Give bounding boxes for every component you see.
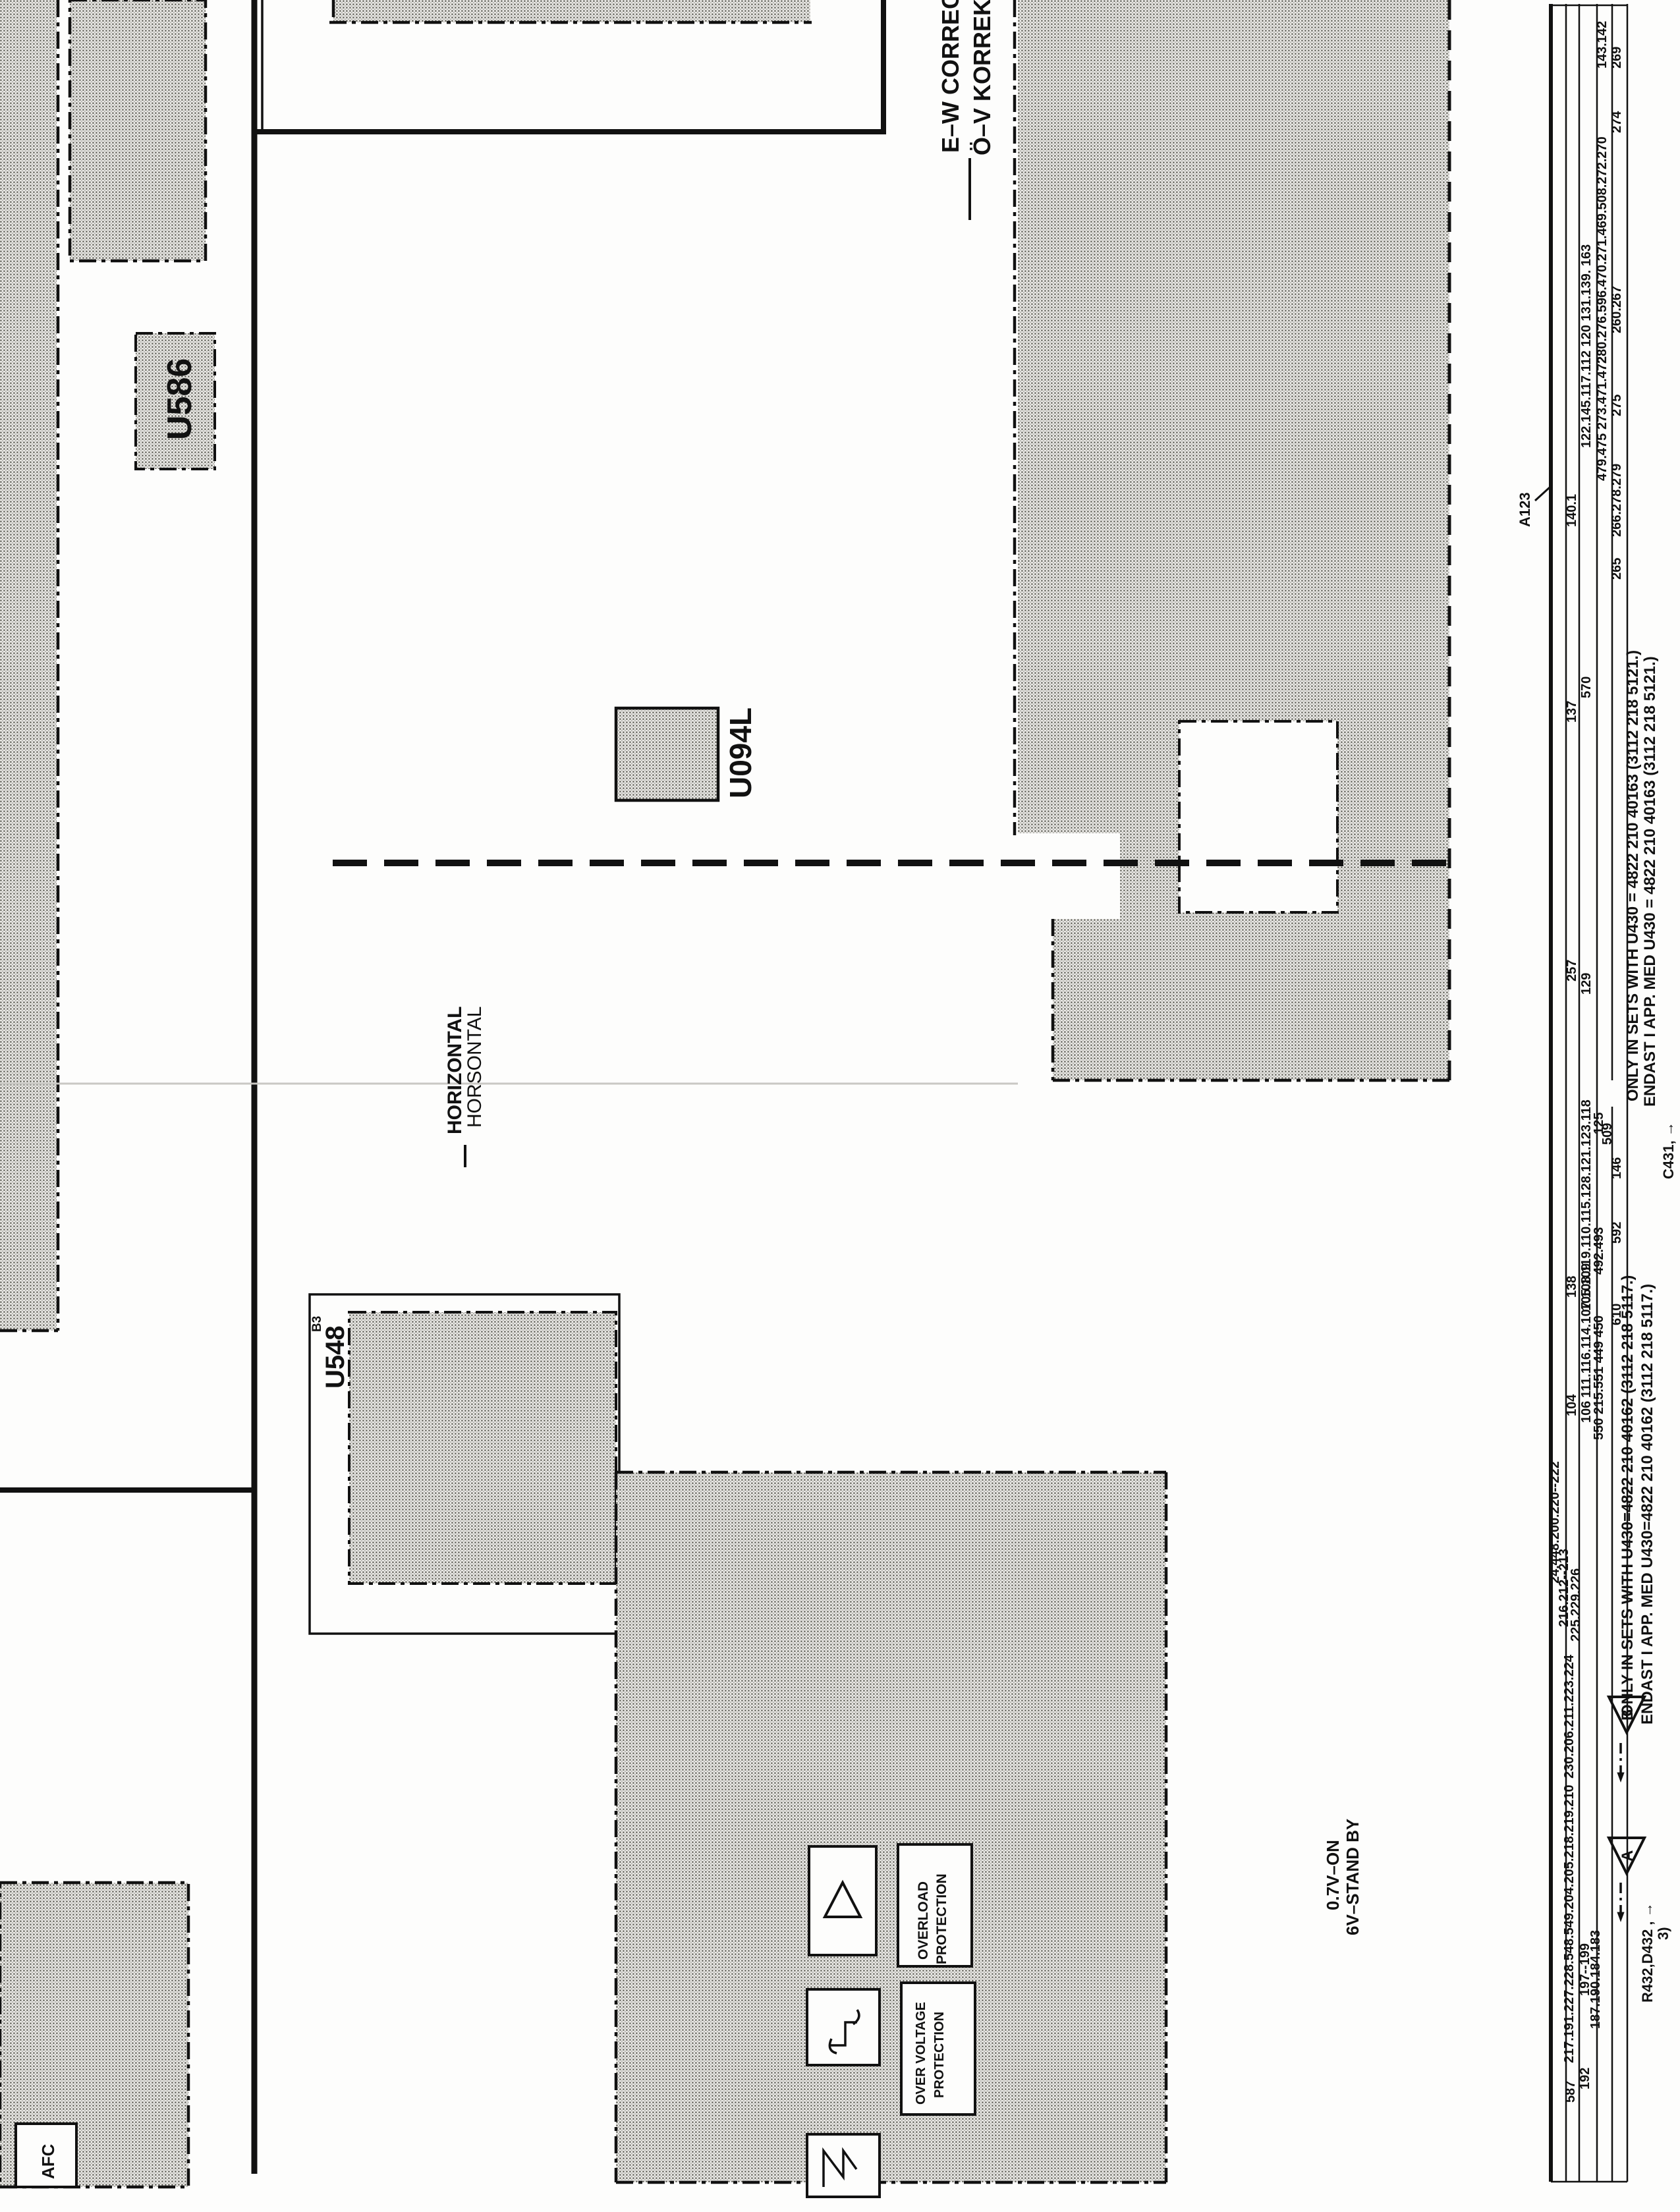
svg-text:492.493: 492.493	[1592, 1227, 1606, 1275]
svg-text:143.142: 143.142	[1595, 21, 1610, 69]
svg-text:104: 104	[1565, 1394, 1579, 1416]
svg-text:265: 265	[1610, 558, 1624, 580]
wire bottom-left heavy border	[0, 1487, 254, 1493]
AFC box	[16, 2124, 76, 2187]
svg-text:A123: A123	[1517, 492, 1533, 527]
sawtooth generator box	[807, 2134, 880, 2197]
svg-text:U586: U586	[161, 358, 199, 440]
svg-text:B3: B3	[310, 1316, 324, 1332]
note ONLY IN SETS lower	[1619, 1275, 1656, 1725]
over voltage protection box	[901, 1983, 975, 2115]
label 0.7V-ON 6V-STANDBY	[1323, 1819, 1362, 1935]
note C431 arrow	[1660, 1122, 1677, 1179]
svg-text:ENDAST I APP. MED U430 = 4822: ENDAST I APP. MED U430 = 4822 210 40163 …	[1641, 656, 1659, 1107]
svg-text:266.278.279: 266.278.279	[1610, 464, 1624, 537]
svg-text:Ö–V KORREKTION: Ö–V KORREKTION	[968, 0, 995, 155]
module block top-left (R001-R003 sync block)	[70, 0, 206, 261]
svg-text:C431, →: C431, →	[1660, 1122, 1677, 1179]
module AFC block bottom-left	[0, 1883, 188, 2187]
svg-text:HORIZONTAL: HORIZONTAL	[444, 1007, 466, 1134]
svg-text:6V–STAND BY: 6V–STAND BY	[1343, 1819, 1362, 1935]
svg-text:105.109: 105.109	[1579, 1263, 1594, 1311]
module U548 driver block	[310, 1294, 619, 1634]
svg-text:B: B	[1619, 1709, 1637, 1721]
marker triangle A	[1609, 1838, 1644, 1922]
wire main vertical bus	[254, 0, 262, 2174]
wire heavy vertical right border of top block	[881, 0, 886, 134]
svg-text:230.206.211.223.224: 230.206.211.223.224	[1562, 1654, 1577, 1779]
module S523 sub-block border	[1179, 721, 1337, 912]
svg-text:509: 509	[1600, 1123, 1615, 1145]
note ONLY IN SETS upper	[1624, 650, 1659, 1107]
module U586 block	[136, 333, 215, 469]
overload protection box	[898, 1844, 972, 1966]
svg-text:R432,D432 , →: R432,D432 , →	[1639, 1902, 1656, 2003]
svg-text:HORSONTAL: HORSONTAL	[464, 1007, 486, 1128]
wire page fold line	[0, 1083, 1018, 1085]
note R432 D432	[1639, 1902, 1671, 2003]
svg-text:PROTECTION: PROTECTION	[934, 1873, 949, 1964]
svg-text:ONLY IN SETS WITH U430 = 4822: ONLY IN SETS WITH U430 = 4822 210 40163 …	[1624, 650, 1642, 1101]
svg-text:137: 137	[1565, 701, 1579, 723]
svg-text:0.7V–ON: 0.7V–ON	[1323, 1840, 1343, 1910]
table cross-reference numbers	[1548, 21, 1624, 2103]
svg-text:280.276.596.470.271.469.508.27: 280.276.596.470.271.469.508.272.270	[1595, 136, 1610, 364]
svg-text:269: 269	[1610, 47, 1624, 69]
label U586	[161, 358, 199, 440]
svg-text:260.267: 260.267	[1610, 286, 1624, 333]
table thin vertical rules	[1551, 4, 1627, 2182]
label U094L	[723, 707, 758, 798]
svg-text:225.229.226: 225.229.226	[1569, 1568, 1583, 1642]
svg-text:217.191.227.228.548.549.204.20: 217.191.227.228.548.549.204.205.218.219.…	[1562, 1784, 1577, 2063]
svg-text:570: 570	[1579, 677, 1594, 698]
svg-text:187.190.184.183: 187.190.184.183	[1588, 1930, 1603, 2029]
svg-text:192: 192	[1578, 2068, 1592, 2089]
svg-text:275: 275	[1610, 395, 1624, 416]
svg-text:E–W CORRECTION: E–W CORRECTION	[937, 0, 964, 153]
marker triangle B	[1609, 1697, 1644, 1783]
svg-text:129: 129	[1579, 973, 1594, 995]
wire main dashed section divider	[333, 860, 1449, 866]
svg-text:OVERLOAD: OVERLOAD	[916, 1881, 931, 1960]
svg-text:U548: U548	[321, 1325, 350, 1389]
svg-text:OVER VOLTAGE: OVER VOLTAGE	[914, 2002, 928, 2105]
svg-text:U094L: U094L	[723, 707, 758, 798]
svg-text:ENDAST I APP. MED U430=4822 2: ENDAST I APP. MED U430=4822 210 40162 (3…	[1638, 1284, 1656, 1725]
svg-text:PROTECTION: PROTECTION	[932, 2012, 947, 2098]
svg-text:3): 3)	[1655, 1927, 1671, 1940]
svg-text:140.1: 140.1	[1565, 494, 1579, 527]
svg-text:A: A	[1619, 1850, 1637, 1862]
svg-text:274: 274	[1610, 111, 1624, 133]
svg-text:550 215.551 449 450: 550 215.551 449 450	[1592, 1315, 1606, 1440]
label A123 table	[1517, 487, 1550, 527]
op-amp box (error amplifier)	[809, 1846, 876, 1955]
module U094L flyback block	[616, 708, 718, 800]
svg-text:257: 257	[1565, 960, 1579, 982]
module block left edge (gray halftone strip)	[0, 0, 58, 1331]
label U548	[310, 1316, 350, 1389]
svg-text:AFC: AFC	[38, 2143, 58, 2179]
label HORIZONTAL	[444, 1007, 486, 1167]
svg-text:138: 138	[1565, 1276, 1579, 1298]
svg-text:592: 592	[1610, 1222, 1624, 1244]
svg-text:587: 587	[1563, 2081, 1578, 2103]
svg-text:479.475 273.471.472: 479.475 273.471.472	[1595, 356, 1610, 481]
module block top-center strip	[329, 0, 812, 22]
comparator box (hysteresis)	[807, 1989, 880, 2065]
wire main horizontal top border	[252, 129, 886, 134]
svg-text:146: 146	[1610, 1157, 1624, 1179]
module PSU control block (big bottom gray)	[616, 1472, 1166, 2182]
module block right (E-W correction area, gray halftone)	[1015, 0, 1449, 1084]
table main thick vertical rule	[1549, 4, 1553, 2182]
label E-W CORRECTION	[937, 0, 995, 220]
svg-text:122.145.117.112 120 131.139.: 122.145.117.112 120 131.139. 163	[1579, 244, 1594, 448]
svg-text:ONLY IN SETS WITH U430=4822 2: ONLY IN SETS WITH U430=4822 210 40162 (3…	[1619, 1275, 1637, 1717]
